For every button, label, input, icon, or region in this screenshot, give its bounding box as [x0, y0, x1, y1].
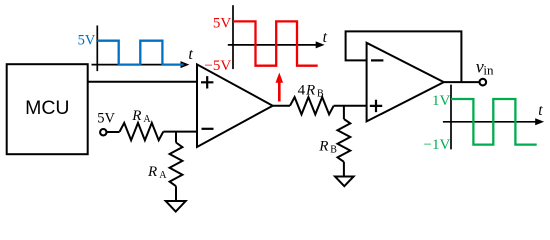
svg-text:R: R: [131, 108, 141, 124]
svg-text:5V: 5V: [97, 110, 115, 126]
svg-text:MCU: MCU: [25, 97, 69, 119]
svg-text:−1V: −1V: [424, 137, 451, 153]
svg-text:5V: 5V: [213, 16, 232, 32]
svg-text:t: t: [188, 46, 193, 63]
svg-text:A: A: [143, 114, 151, 125]
svg-text:B: B: [330, 145, 337, 156]
svg-text:−5V: −5V: [204, 58, 231, 74]
svg-text:5V: 5V: [78, 32, 96, 48]
svg-text:4: 4: [298, 83, 306, 99]
svg-text:B: B: [317, 89, 324, 100]
svg-text:A: A: [159, 170, 167, 181]
svg-text:t: t: [323, 29, 328, 46]
svg-text:R: R: [147, 164, 157, 180]
svg-text:R: R: [318, 138, 328, 154]
svg-text:in: in: [483, 63, 494, 78]
svg-text:t: t: [538, 102, 543, 119]
svg-text:R: R: [305, 83, 315, 99]
svg-text:1V: 1V: [432, 93, 451, 109]
